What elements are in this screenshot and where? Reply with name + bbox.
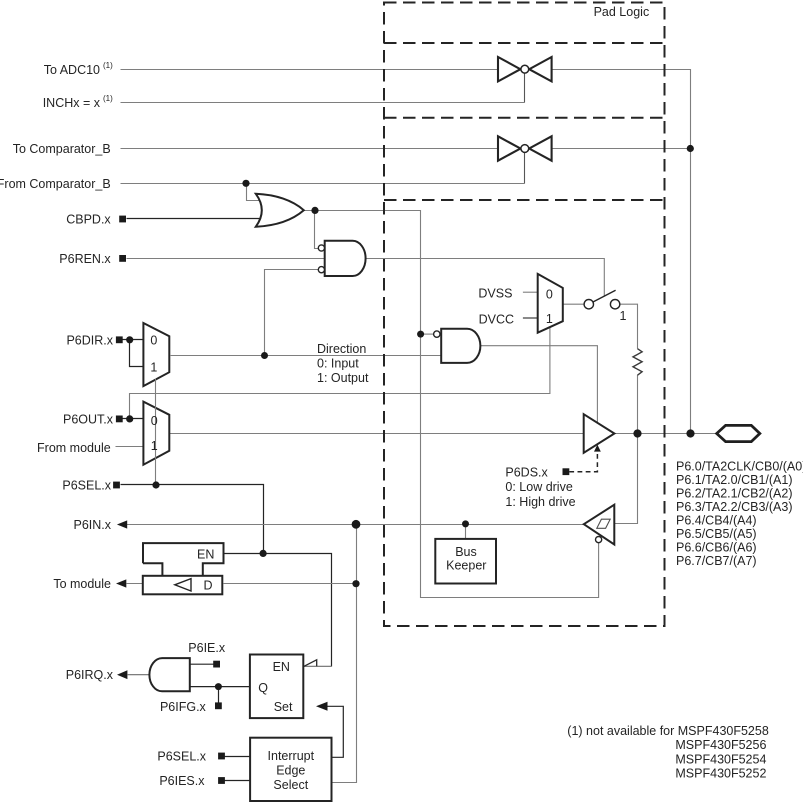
wire NAND1 output to switch control	[366, 259, 605, 297]
wire NAND1 bottom bubble from direction line	[265, 270, 319, 356]
svg-text:Q: Q	[258, 681, 268, 695]
wire CBPD.x row to OR input	[127, 218, 263, 220]
svg-text:1: High drive: 1: High drive	[505, 495, 575, 509]
svg-text:To Comparator_B: To Comparator_B	[13, 142, 111, 156]
wire bus keeper to P6IN line	[465, 524, 467, 539]
wire pad to Schmitt input	[614, 434, 637, 524]
D latch clock triangle	[175, 579, 191, 591]
pad logic dashed frame	[384, 3, 665, 627]
square P6IES.x	[218, 777, 225, 784]
wire P6OUT.x input	[123, 418, 143, 420]
mux M3 (DVSS/DVCC)	[538, 274, 563, 333]
svg-text:P6.0/TA2CLK/CB0/(A0): P6.0/TA2CLK/CB0/(A0)	[676, 460, 803, 474]
svg-text:1: 1	[150, 360, 157, 374]
node P6SEL junction	[152, 481, 159, 488]
wire NAND2 input from enable line	[421, 333, 434, 335]
node resistor pad junction	[633, 429, 641, 437]
square P6IFG.x	[215, 702, 222, 709]
svg-text:MSPF430F5254: MSPF430F5254	[675, 752, 766, 766]
wire DVSS/DVCC mux output to switch	[563, 303, 584, 305]
svg-text:P6.1/TA2.0/CB1/(A1): P6.1/TA2.0/CB1/(A1)	[676, 473, 793, 487]
square P6SEL.x	[113, 482, 120, 489]
wire D latch input	[224, 583, 357, 585]
svg-text:Edge: Edge	[276, 763, 305, 777]
svg-text:Set: Set	[274, 700, 293, 714]
svg-text:Select: Select	[273, 778, 308, 792]
wire P6REN.x row to NAND1	[127, 258, 325, 260]
wire To module from D latch	[127, 583, 144, 585]
svg-text:P6.6/CB6/(A6): P6.6/CB6/(A6)	[676, 540, 757, 554]
node enable to NAND2	[417, 331, 424, 338]
wire NAND2 output to driver enable	[480, 346, 597, 423]
node Q P6IFG junction	[215, 683, 222, 690]
square P6DS.x	[563, 468, 570, 475]
nand U2 (P6REN)	[325, 241, 366, 276]
wire EN latch output	[224, 554, 332, 667]
output driver buffer	[584, 414, 615, 453]
svg-text:P6SEL.x: P6SEL.x	[62, 479, 111, 493]
bubble U2 bottom input	[318, 267, 324, 273]
svg-text:D: D	[204, 579, 213, 593]
P6DS dashed control	[569, 452, 597, 471]
svg-text:EN: EN	[273, 660, 290, 674]
node P6DIR input junction	[126, 336, 133, 343]
wire DVSS stub	[523, 291, 539, 293]
wire pad line	[614, 433, 716, 435]
svg-text:Bus: Bus	[455, 545, 477, 559]
wire P6SEL.x second input	[225, 756, 251, 758]
mux M2 (P6OUT)	[143, 402, 169, 465]
svg-text:P6IN.x: P6IN.x	[73, 518, 111, 532]
wire switch to resistor	[620, 304, 638, 349]
schmitt hysteresis symbol	[597, 519, 610, 528]
square P6REN.x	[119, 255, 126, 262]
square P6IE.x	[213, 661, 220, 668]
wire P6DIR.x input	[123, 339, 143, 341]
wire P6IN.x row from Schmitt output	[127, 524, 585, 526]
svg-text:To module: To module	[53, 577, 111, 591]
svg-text:Keeper: Keeper	[446, 558, 486, 572]
svg-text:1: 1	[151, 439, 158, 453]
wire P6IES.x input	[225, 780, 251, 782]
wire P6SEL.x row	[121, 485, 264, 554]
bubble U3 top input	[434, 331, 440, 337]
wire To Comparator_B row	[121, 148, 499, 150]
resistor R1	[633, 349, 642, 376]
D latch box	[143, 576, 223, 595]
wire TG1 control stub	[524, 74, 526, 103]
svg-text:1: 1	[546, 312, 553, 326]
node TG2 output junction	[687, 145, 694, 152]
node EN line junction	[260, 550, 267, 557]
EN latch box	[143, 543, 224, 576]
svg-text:From Comparator_B: From Comparator_B	[0, 177, 111, 191]
svg-text:(1): (1)	[103, 94, 113, 103]
wire From Comparator_B row	[121, 183, 525, 185]
wire pin signal vertical to edge select	[332, 525, 357, 783]
svg-text:CBPD.x: CBPD.x	[66, 213, 111, 227]
square CBPD.x	[119, 216, 126, 223]
clock edge triangle	[304, 660, 317, 667]
node D latch junction	[352, 580, 359, 587]
wire To ADC10 row	[121, 69, 499, 71]
square P6SEL.x 2	[218, 753, 225, 760]
svg-text:MSPF430F5252: MSPF430F5252	[675, 766, 766, 780]
svg-text:0: 0	[151, 414, 158, 428]
square P6DIR.x	[116, 336, 123, 343]
svg-text:P6OUT.x: P6OUT.x	[63, 412, 114, 426]
node OR output junction	[311, 207, 318, 214]
nand U3 (pull resistor enable)	[441, 329, 480, 363]
node pad vertical junction	[686, 429, 694, 437]
interrupt flag latch box	[250, 655, 303, 719]
wire P6IE.x input	[190, 663, 214, 665]
svg-text:P6DIR.x: P6DIR.x	[66, 333, 113, 347]
svg-text:P6IES.x: P6IES.x	[159, 774, 205, 788]
svg-text:Direction: Direction	[317, 342, 366, 356]
svg-text:0: Low drive: 0: Low drive	[505, 480, 572, 494]
svg-text:Pad Logic: Pad Logic	[594, 5, 650, 19]
svg-text:P6.3/TA2.2/CB3/(A3): P6.3/TA2.2/CB3/(A3)	[676, 500, 793, 514]
svg-text:P6.2/TA2.1/CB2/(A2): P6.2/TA2.1/CB2/(A2)	[676, 487, 793, 501]
svg-text:(1): (1)	[103, 61, 113, 70]
svg-text:Interrupt: Interrupt	[268, 749, 315, 763]
wire P6DIR.x branch to input 1	[130, 340, 143, 367]
node From Comparator_B junction	[242, 180, 249, 187]
wire P6IFG.x stub	[218, 687, 220, 703]
input schmitt trigger buffer	[584, 505, 615, 545]
svg-text:DVCC: DVCC	[479, 312, 514, 326]
svg-text:MSPF430F5256: MSPF430F5256	[675, 738, 766, 752]
wire DVCC stub	[523, 317, 539, 319]
wire direction line mux1 output to NAND2	[171, 355, 442, 357]
svg-text:0: 0	[150, 333, 157, 347]
arrow To module	[116, 579, 126, 587]
svg-text:0: Input: 0: Input	[317, 356, 359, 370]
pad hexagon	[717, 425, 760, 441]
arrow Set input	[316, 702, 328, 711]
transmission gate TG1 (ADC)	[498, 57, 552, 81]
wire From Comparator_B branch to OR input	[247, 184, 263, 201]
wire Set input loop from edge select output	[327, 706, 343, 757]
wire TG2 control stub	[524, 153, 526, 184]
mux M1 (P6DIR)	[143, 323, 169, 386]
bubble U2 top input	[318, 245, 324, 251]
svg-text:(1) not available for MSPF430F: (1) not available for MSPF430F5258	[567, 724, 769, 738]
svg-text:P6REN.x: P6REN.x	[59, 252, 111, 266]
svg-text:P6IE.x: P6IE.x	[188, 641, 226, 655]
square P6OUT.x	[116, 416, 123, 423]
wire From module input	[116, 446, 143, 448]
wire resistor bottom to pad line	[637, 375, 639, 434]
node P6IN junction	[352, 520, 361, 529]
svg-text:1: Output: 1: Output	[317, 371, 369, 385]
svg-text:P6DS.x: P6DS.x	[505, 466, 548, 480]
wire OR output branch to NAND1 top bubble	[315, 211, 319, 249]
arrow P6IRQ.x	[117, 670, 127, 679]
bus keeper box	[435, 539, 496, 584]
svg-text:P6SEL.x: P6SEL.x	[157, 750, 206, 764]
bubble schmitt enable	[596, 537, 602, 543]
svg-text:1: 1	[620, 309, 627, 323]
svg-text:0: 0	[546, 288, 553, 302]
or-gate U1 (CBPD + From Comparator_B)	[256, 194, 304, 227]
wire P6IRQ output	[128, 674, 150, 676]
interrupt edge select box	[250, 738, 331, 801]
node direction line junction	[261, 352, 268, 359]
arrow P6IN.x	[117, 520, 127, 528]
svg-text:P6.4/CB4/(A4): P6.4/CB4/(A4)	[676, 514, 757, 528]
svg-text:To ADC10: To ADC10	[44, 63, 100, 77]
svg-text:P6IFG.x: P6IFG.x	[160, 700, 207, 714]
svg-text:P6.7/CB7/(A7): P6.7/CB7/(A7)	[676, 554, 757, 568]
wire OR output to vertical x420.9	[304, 211, 599, 598]
svg-text:EN: EN	[197, 548, 214, 562]
svg-text:DVSS: DVSS	[478, 286, 512, 300]
svg-text:P6.5/CB5/(A5): P6.5/CB5/(A5)	[676, 527, 757, 541]
switch S1	[584, 290, 620, 309]
wire TG1 output to right vertical	[552, 70, 691, 434]
node P6OUT input junction	[126, 415, 133, 422]
wire TG2 output	[552, 148, 691, 150]
wire pull direction feedback from DVSS/DVCC mux select	[130, 327, 550, 419]
wire mux2 output to output driver	[170, 433, 584, 435]
svg-text:P6IRQ.x: P6IRQ.x	[66, 668, 114, 682]
wire Q output to AND gate	[190, 686, 250, 688]
transmission gate TG2 (Comparator)	[498, 136, 552, 160]
wire INCHx row	[121, 102, 525, 104]
wire mux select line P6SEL	[155, 379, 157, 485]
arrow P6DS to driver	[594, 445, 601, 452]
svg-text:From module: From module	[37, 441, 111, 455]
node bus keeper junction	[462, 520, 469, 527]
svg-text:INCHx = x: INCHx = x	[43, 96, 101, 110]
and gate U4 (P6IRQ)	[149, 658, 189, 691]
